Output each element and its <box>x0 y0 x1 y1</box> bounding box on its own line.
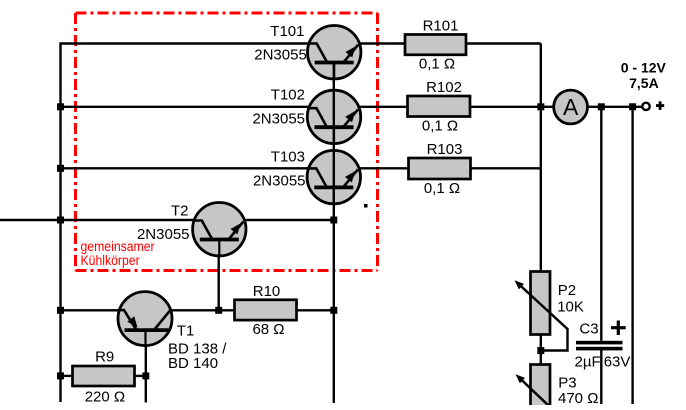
wire: common base bus vertical through T101-T103 down past R10 <box>333 63 335 404</box>
svg-text:2µF: 2µF <box>575 353 601 370</box>
node rail/R9 junction <box>57 372 64 379</box>
wire: C3 branch vertical lower <box>600 350 602 404</box>
svg-text:R102: R102 <box>426 79 462 96</box>
transistor T103 2N3055 <box>307 150 360 205</box>
potentiometer P2 10K <box>515 272 568 351</box>
svg-text:Kühlkörper: Kühlkörper <box>81 252 141 268</box>
wire: R9 to T1 bottom line <box>134 375 146 377</box>
wire: ammeter to output terminal <box>587 106 642 108</box>
wire: T2 bottom lead down to R10 node <box>217 254 219 310</box>
resistor R9 <box>73 366 135 386</box>
svg-text:T2: T2 <box>171 203 189 220</box>
wire: R103 to bus <box>470 167 541 169</box>
wire: rail to R9 <box>61 375 74 377</box>
svg-text:2N3055: 2N3055 <box>252 110 305 127</box>
node output/right-tap junction <box>629 103 636 110</box>
svg-text:T102: T102 <box>271 86 305 103</box>
node T2-emitter/base-bus junction <box>330 217 337 224</box>
svg-text:R10: R10 <box>253 283 281 300</box>
svg-text:7,5A: 7,5A <box>629 75 659 91</box>
node bus/R102/ammeter junction <box>537 103 544 110</box>
svg-text:C3: C3 <box>579 320 598 337</box>
transistor T2 2N3055 <box>193 203 246 258</box>
node R9/T1-line junction <box>142 372 149 379</box>
node rail/T103 junction <box>57 165 64 172</box>
node output/C3-tap junction <box>598 103 605 110</box>
wire: R10 to base bus <box>296 309 334 311</box>
node rail/T102 junction <box>57 103 64 110</box>
wire: output bus vertical down to P2 <box>540 44 542 273</box>
wire: R101 to output bus corner <box>465 42 541 44</box>
svg-text:A: A <box>563 94 579 120</box>
wire: T1 to T2-base/R10 node <box>171 309 235 311</box>
svg-text:P3: P3 <box>558 374 576 391</box>
svg-text:T101: T101 <box>270 23 304 40</box>
wire: T103 emitter to R103 <box>358 167 409 169</box>
svg-text:220 Ω: 220 Ω <box>85 388 125 405</box>
svg-text:68 Ω: 68 Ω <box>252 321 284 338</box>
svg-text:0,1 Ω: 0,1 Ω <box>422 117 458 134</box>
svg-text:63V: 63V <box>604 353 631 370</box>
node rail/T1 junction <box>57 307 64 314</box>
svg-text:R9: R9 <box>95 348 114 365</box>
transistor T1 BD138/BD140 <box>118 292 172 347</box>
svg-text:0,1 Ω: 0,1 Ω <box>419 56 455 73</box>
svg-text:2N3055: 2N3055 <box>254 47 307 64</box>
svg-text:2N3055: 2N3055 <box>253 172 306 189</box>
wire: T1 bottom lead down past R9 <box>145 344 147 403</box>
svg-text:T1: T1 <box>177 322 195 339</box>
wire: T102 collector from rail <box>61 106 309 108</box>
svg-text:470 Ω: 470 Ω <box>558 390 598 405</box>
wire: C3 branch vertical upper <box>600 107 602 341</box>
C3 polarity plus <box>611 321 626 336</box>
svg-text:BD 140: BD 140 <box>168 355 218 372</box>
resistor R102 <box>408 96 471 117</box>
node T2-base/R10/T1 junction <box>215 307 222 314</box>
svg-text:P2: P2 <box>558 282 576 299</box>
svg-text:10K: 10K <box>557 298 584 315</box>
svg-text:R103: R103 <box>427 141 463 158</box>
node rail/input junction <box>57 217 64 224</box>
node R10/base-bus junction <box>330 307 337 314</box>
wire: input line to T2 base-collector <box>0 219 194 221</box>
transistor T102 2N3055 <box>307 90 360 145</box>
wire: T103 collector from rail <box>61 167 310 169</box>
wire: rail to T1 <box>61 309 120 311</box>
wire: T2 emitter to base bus <box>245 219 334 221</box>
stray dot mark <box>364 204 368 208</box>
wire: T101 emitter to R101 <box>359 42 405 44</box>
node P2/P3 junction <box>537 347 544 354</box>
wire: left supply rail with corner to T101 collector <box>61 44 309 403</box>
resistor R103 <box>409 158 471 179</box>
wire: T102 emitter to R102 <box>359 106 408 108</box>
svg-text:0 - 12V: 0 - 12V <box>621 59 667 75</box>
svg-text:R101: R101 <box>423 17 459 34</box>
resistor R10 <box>235 300 297 320</box>
svg-text:0,1 Ω: 0,1 Ω <box>424 180 460 197</box>
potentiometer P3 470 Ohm <box>516 365 551 410</box>
capacitor C3 2uF 63V <box>576 341 623 351</box>
wire: P2 bottom to P3 top <box>540 334 542 365</box>
wire: right output branch vertical <box>631 107 633 404</box>
resistor R101 <box>405 35 466 55</box>
wire: bus to ammeter <box>541 106 554 108</box>
ammeter A <box>554 90 588 124</box>
svg-text:T103: T103 <box>271 148 305 165</box>
common heatsink outline (gemeinsamer Kuehlkoerper) <box>76 13 378 271</box>
transistor T101 2N3055 <box>308 26 361 81</box>
output terminal (open circle) <box>642 103 649 110</box>
output plus sign <box>656 101 664 110</box>
wire: R102 to bus <box>469 106 541 108</box>
